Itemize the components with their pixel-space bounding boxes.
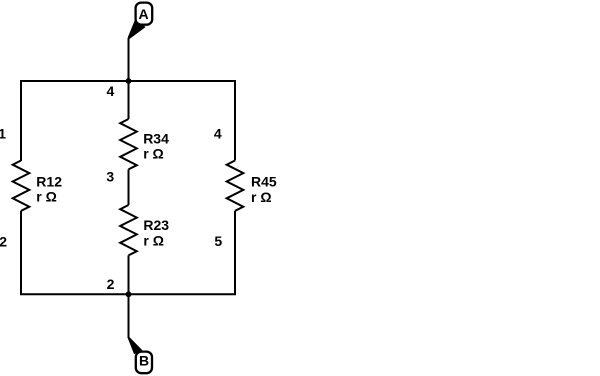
terminal A [136, 3, 153, 25]
wire from A to node 4 [128, 38, 130, 81]
svg-text:A: A [138, 6, 148, 22]
svg-text:2: 2 [0, 234, 7, 250]
resistor R34 [120, 119, 137, 169]
svg-text:r Ω: r Ω [143, 233, 164, 249]
wire middle rail between R34 and R23 [128, 169, 130, 205]
wedge to terminal B [128, 337, 143, 354]
svg-text:1: 1 [0, 126, 6, 142]
wire middle rail lower [128, 255, 130, 294]
wire middle rail upper [128, 81, 130, 119]
terminal B [136, 352, 152, 374]
wire right rail lower [234, 211, 236, 295]
wire from node 2 to B [128, 294, 130, 338]
svg-text:3: 3 [106, 169, 114, 185]
svg-text:B: B [139, 353, 149, 369]
node 4 junction dot [126, 78, 132, 84]
svg-text:r Ω: r Ω [251, 189, 272, 205]
resistor R45 [227, 161, 244, 211]
svg-text:4: 4 [214, 125, 222, 141]
resistor R23 [120, 205, 137, 255]
wedge to terminal A [128, 20, 146, 39]
svg-text:4: 4 [107, 83, 115, 99]
svg-text:2: 2 [107, 276, 115, 292]
svg-text:5: 5 [214, 233, 222, 249]
svg-text:R34: R34 [143, 130, 169, 146]
svg-text:R12: R12 [36, 173, 62, 189]
wire bottom horizontal [20, 293, 236, 295]
wire top horizontal [20, 80, 236, 82]
resistor R12 [13, 161, 30, 211]
wire left rail lower [20, 211, 22, 295]
svg-text:R45: R45 [251, 174, 277, 190]
svg-text:r Ω: r Ω [36, 189, 57, 205]
wire right rail upper [234, 80, 236, 161]
svg-text:R23: R23 [143, 217, 169, 233]
node 2 junction dot [126, 291, 132, 297]
svg-text:r Ω: r Ω [143, 146, 164, 162]
wire left rail upper [20, 80, 22, 161]
